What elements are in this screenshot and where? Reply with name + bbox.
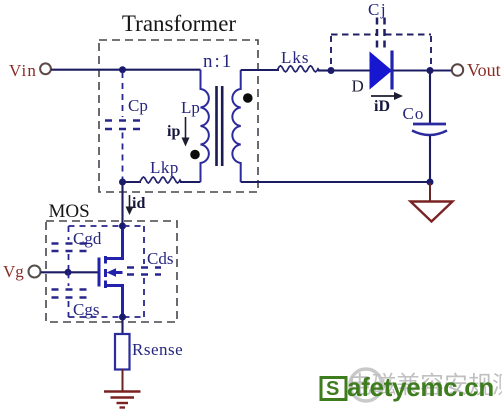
phasing dot primary: [190, 150, 200, 160]
svg-text:afetyemc.cn: afetyemc.cn: [347, 372, 494, 402]
svg-text:Cds: Cds: [147, 249, 173, 268]
wire node C to diode: [331, 69, 370, 71]
svg-text:Lkp: Lkp: [150, 158, 179, 177]
diode D: [370, 51, 392, 90]
node H source: [119, 314, 126, 321]
resistor Rsense: [115, 334, 130, 370]
wire node D to terminal Vout: [430, 69, 452, 71]
node A: [119, 66, 126, 73]
svg-text:D: D: [352, 77, 364, 96]
inductor Lks: [277, 66, 320, 72]
wire Vin to node A: [51, 69, 123, 71]
svg-text:Co: Co: [403, 104, 425, 123]
wire Vg to gate: [41, 271, 98, 273]
svg-text:Lp: Lp: [181, 98, 200, 117]
watermark gray overlay: [348, 369, 502, 401]
transistor Q1 MOSFET: [99, 229, 123, 317]
current arrow ip: [182, 117, 190, 147]
terminal Vout: [452, 64, 463, 75]
ground power: [104, 392, 141, 408]
transformer dashed box: [99, 40, 258, 192]
svg-text:S: S: [326, 378, 339, 400]
terminal Vg: [29, 266, 41, 278]
current arrow id: [126, 195, 134, 215]
dashed net drain top: [69, 225, 145, 227]
dashed net source bottom: [69, 316, 145, 318]
ground output: [411, 202, 453, 222]
terminal Vin: [40, 63, 51, 74]
wire node E to ground: [429, 183, 431, 202]
capacitor Cj: [331, 18, 431, 67]
core: [217, 86, 223, 166]
node G gate: [65, 269, 72, 276]
node F drain: [119, 223, 126, 230]
current arrow iD: [371, 92, 403, 100]
wire secondary top to Lks: [241, 69, 279, 71]
MOS dashed box: [46, 221, 177, 322]
svg-text:ip: ip: [167, 123, 180, 140]
wire node A to primary winding top: [123, 69, 201, 71]
svg-text:Vout: Vout: [467, 60, 501, 80]
watermark logo box S: [321, 378, 346, 401]
inductor Lkp: [140, 177, 182, 183]
capacitor Cgs: [52, 272, 87, 317]
capacitor Co: [412, 124, 447, 135]
wire node B to drain node: [121, 182, 123, 226]
node E: [427, 179, 434, 186]
svg-text:MOS: MOS: [49, 201, 90, 222]
wire node B to Lkp: [123, 181, 142, 183]
wire source to Rsense: [121, 317, 123, 334]
svg-text:Cp: Cp: [128, 96, 148, 115]
phasing dot secondary: [243, 93, 253, 103]
svg-text:Lks: Lks: [281, 48, 310, 67]
node B: [119, 179, 126, 186]
svg-text:Vg: Vg: [3, 262, 24, 281]
svg-text:iD: iD: [374, 98, 390, 115]
capacitor Cgd: [52, 226, 87, 272]
svg-text:Vin: Vin: [9, 61, 37, 80]
svg-text:Cj: Cj: [368, 0, 387, 19]
wire Rsense to ground: [122, 369, 124, 391]
svg-text:id: id: [132, 195, 145, 212]
svg-text:Transformer: Transformer: [122, 11, 236, 36]
svg-text:Cgd: Cgd: [73, 229, 102, 248]
capacitor Cp: [105, 72, 140, 179]
wire Co to node E: [429, 136, 431, 183]
wire Lks to node C: [318, 69, 331, 71]
node C: [328, 67, 335, 74]
wire node D to capacitor Co: [429, 71, 431, 124]
node D output: [427, 67, 434, 74]
svg-text:Rsense: Rsense: [132, 340, 183, 359]
svg-text:n:1: n:1: [203, 51, 233, 72]
wire Lkp to primary winding bottom: [180, 181, 201, 183]
wire diode to node D: [393, 69, 430, 71]
winding secondary: [232, 70, 240, 182]
capacitor Cds: [127, 226, 161, 317]
wire secondary bottom: [241, 181, 430, 183]
winding Lp primary: [201, 70, 209, 182]
